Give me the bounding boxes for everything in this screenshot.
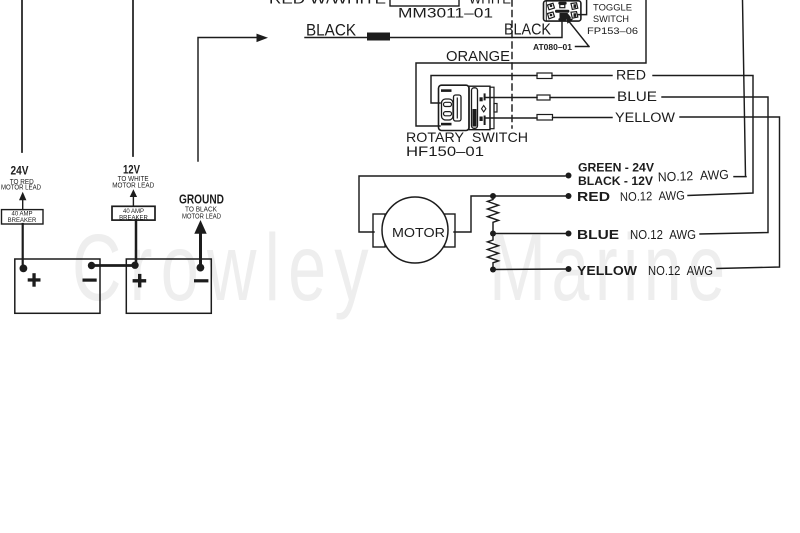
svg-text:NO.12 AWG: NO.12 AWG (630, 228, 696, 242)
svg-text:ORANGE: ORANGE (446, 48, 510, 65)
svg-text:HF150–01: HF150–01 (406, 143, 484, 159)
svg-text:FP153–06: FP153–06 (587, 26, 638, 37)
svg-text:SWITCH: SWITCH (593, 14, 629, 25)
svg-text:BREAKER: BREAKER (8, 218, 37, 224)
svg-text:Crowley: Crowley (72, 214, 369, 321)
svg-text:GROUND: GROUND (179, 192, 224, 207)
svg-text:RED W/WHITE: RED W/WHITE (269, 0, 386, 7)
svg-text:24V: 24V (11, 163, 29, 177)
svg-text:BLACK: BLACK (504, 22, 552, 39)
svg-text:TOGGLE: TOGGLE (593, 3, 632, 14)
svg-text:TO BLACK: TO BLACK (185, 207, 217, 214)
svg-text:BLUE: BLUE (617, 89, 657, 104)
svg-text:AT080–01: AT080–01 (533, 43, 573, 52)
svg-text:NO.12 AWG: NO.12 AWG (620, 189, 685, 204)
svg-text:40 AMP: 40 AMP (123, 209, 144, 215)
svg-text:RED: RED (616, 68, 646, 83)
svg-text:YELLOW: YELLOW (577, 264, 637, 278)
svg-text:BLACK: BLACK (306, 20, 357, 39)
svg-text:MOTOR LEAD: MOTOR LEAD (182, 214, 221, 221)
svg-text:MM3011–01: MM3011–01 (398, 6, 493, 21)
svg-text:RED: RED (577, 190, 610, 204)
svg-text:YELLOW: YELLOW (615, 110, 675, 125)
svg-text:NO.12 AWG: NO.12 AWG (648, 264, 713, 278)
svg-text:MOTOR LEAD: MOTOR LEAD (112, 182, 154, 189)
svg-text:12V: 12V (123, 162, 140, 176)
svg-text:40 AMP: 40 AMP (11, 212, 32, 218)
svg-text:BREAKER: BREAKER (119, 215, 148, 221)
svg-text:MOTOR: MOTOR (392, 226, 445, 240)
svg-text:NO.12 AWG: NO.12 AWG (658, 167, 730, 185)
svg-text:GREEN - 24V: GREEN - 24V (578, 161, 654, 175)
svg-text:MOTOR LEAD: MOTOR LEAD (1, 185, 41, 192)
svg-text:BLACK - 12V: BLACK - 12V (578, 174, 653, 188)
svg-text:BLUE: BLUE (577, 228, 619, 242)
